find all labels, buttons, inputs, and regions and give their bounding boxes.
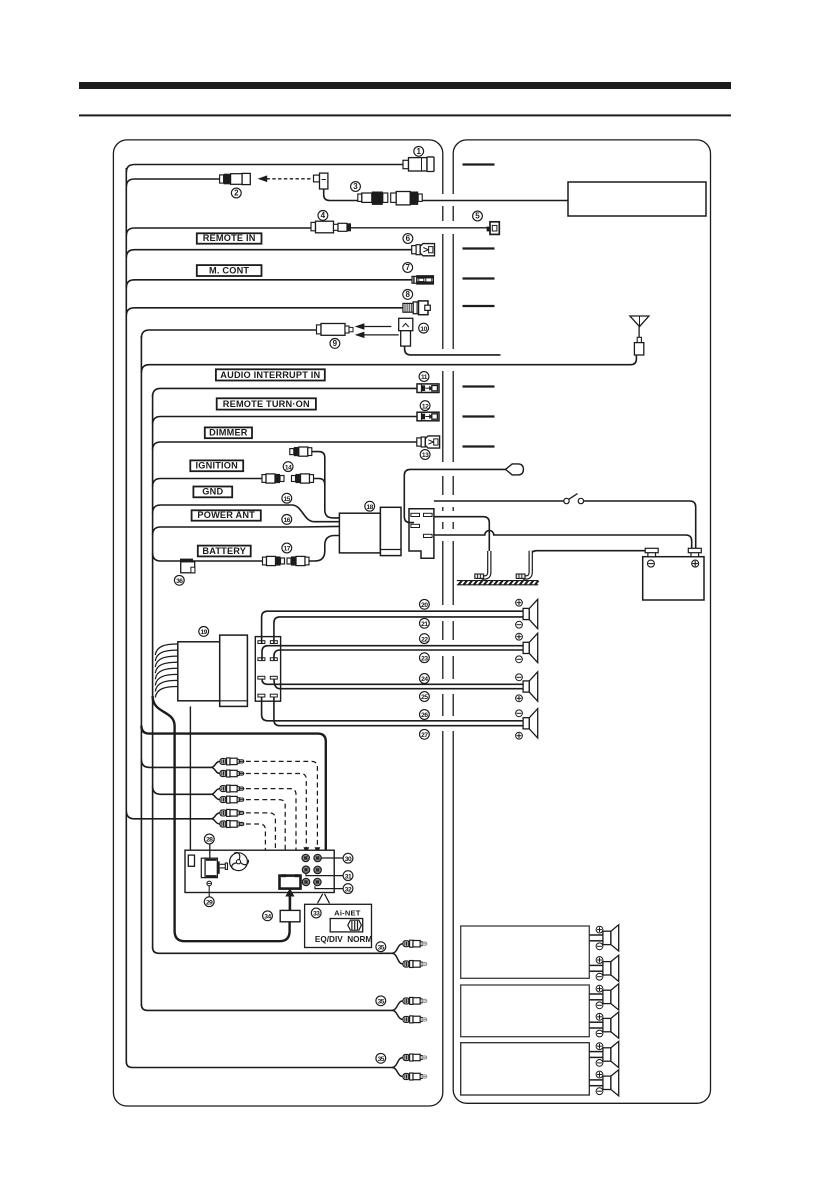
speaker wire 25 [274, 679, 523, 689]
label 12 (circled number) [420, 401, 430, 411]
rca pair 1 cable [141, 759, 211, 767]
svg-text:35: 35 [378, 999, 385, 1006]
speaker amp1-b [589, 964, 603, 966]
speaker rear-left [523, 672, 538, 701]
connector 6 [412, 244, 435, 256]
leader 31 [306, 874, 343, 876]
svg-text:REMOTE TURN·ON: REMOTE TURN·ON [223, 399, 310, 409]
connector 7 [412, 276, 433, 284]
ai-net port [280, 874, 301, 888]
amplifier box 2 [461, 985, 590, 1037]
label 7 (circled number) [403, 263, 413, 273]
label 31 (circled number) [343, 871, 353, 881]
right-angle plug 10 [399, 318, 413, 346]
svg-text:28: 28 [206, 837, 213, 844]
wire bus vertical 3 [152, 394, 154, 948]
cooling fan [230, 853, 249, 871]
svg-text:Ai-NET: Ai-NET [334, 908, 361, 917]
svg-text:5: 5 [475, 212, 480, 221]
rca jacks 32 [302, 878, 321, 885]
output cable 35 front [153, 947, 392, 953]
fuse holder 36 [180, 559, 195, 573]
power antenna wire row 16 [153, 526, 340, 535]
svg-text:33: 33 [313, 911, 320, 918]
svg-text:25: 25 [421, 694, 428, 701]
continuation marks right panel [463, 163, 495, 165]
output cable 35 rear [141, 1004, 391, 1010]
label DIMMER [205, 427, 252, 438]
label 10 (circled number) [419, 323, 429, 333]
svg-text:3: 3 [353, 182, 358, 191]
dashed route 2 [246, 774, 306, 848]
label 28 (circled number) [204, 834, 214, 844]
box 18 right section [380, 507, 401, 555]
label 30 (circled number) [343, 853, 353, 863]
dashed route 6 [246, 824, 300, 882]
rca plug 2a [220, 785, 244, 792]
speaker amp2-a [589, 993, 603, 995]
antenna [630, 316, 649, 355]
wire to power antenna tag [404, 469, 505, 522]
ai-net plug 34 [280, 910, 300, 921]
connector 3 pair [358, 192, 422, 205]
svg-text:35: 35 [378, 1056, 385, 1063]
label 19 (circled number) [199, 627, 209, 637]
svg-text:32: 32 [345, 886, 352, 893]
power antenna tag [506, 464, 524, 475]
wire to ignition switch [434, 500, 564, 502]
label REMOTE IN [197, 233, 262, 244]
svg-text:13: 13 [422, 452, 429, 459]
leader 28 [209, 844, 211, 858]
wire fan into connector 19 [155, 644, 178, 698]
svg-text:11: 11 [421, 374, 428, 381]
head unit rear panel [185, 850, 334, 892]
rca plug 2b [220, 796, 244, 803]
leader 32 [315, 886, 343, 888]
speaker wire 23 [274, 650, 523, 661]
battery wire row 17 with fuse 36 [153, 553, 263, 561]
label 33 (circled number) [311, 908, 321, 918]
dashed route 3 [246, 789, 300, 865]
amplifier box 3 [461, 1043, 590, 1095]
svg-text:M. CONT: M. CONT [209, 265, 249, 275]
svg-text:IGNITION: IGNITION [196, 461, 239, 471]
svg-text:7: 7 [405, 263, 410, 272]
antenna feed wire [141, 355, 636, 373]
svg-text:36: 36 [176, 578, 183, 585]
wire bus vertical 1 [125, 168, 127, 1063]
label 32 (circled number) [343, 884, 353, 894]
svg-text:DIMMER: DIMMER [209, 428, 248, 438]
svg-text:18: 18 [366, 504, 373, 511]
speaker wire 22 [262, 646, 523, 661]
wire row 11 to connector 11 [153, 388, 417, 396]
svg-text:10: 10 [420, 326, 427, 333]
svg-text:24: 24 [421, 676, 428, 683]
rca plug 3a [220, 809, 244, 816]
arrow into ai-net port [286, 889, 294, 911]
svg-text:23: 23 [421, 655, 428, 662]
svg-text:19: 19 [200, 629, 207, 636]
speaker harness connector [255, 637, 280, 702]
wire row 4 to connector 4 [126, 228, 311, 236]
screw 29 [207, 881, 212, 886]
label IGNITION [190, 460, 243, 471]
speaker amp2-b [589, 1021, 603, 1023]
svg-text:31: 31 [345, 873, 352, 880]
speaker amp1-a [589, 934, 603, 936]
label 14 (circled number) [283, 462, 293, 472]
rca plug 3b [220, 821, 244, 828]
connector 13 [417, 436, 440, 448]
changer cable to jacks [141, 726, 325, 861]
box 18 relay [339, 513, 380, 553]
box 33 eq/div [305, 904, 373, 947]
svg-text:30: 30 [345, 856, 352, 863]
ignition switch [564, 494, 584, 504]
connector 19 housing [178, 642, 221, 701]
dashed arrow connector 3 into 2 [259, 176, 312, 182]
svg-text:26: 26 [421, 712, 428, 719]
speaker wire 21 [274, 617, 523, 644]
label 11 (circled number) [419, 372, 429, 382]
label 1 (circled number) [414, 146, 424, 156]
rca plug 1b [220, 770, 244, 777]
svg-text:22: 22 [421, 636, 428, 643]
rca pair 2 cable [153, 786, 211, 794]
label 34 (circled number) [263, 911, 273, 921]
wire row 7 to connector 7 [126, 280, 412, 288]
ignition wire row 14 [153, 479, 262, 487]
svg-text:6: 6 [406, 234, 411, 243]
svg-text:16: 16 [284, 517, 291, 524]
connector 8 antenna plug [403, 301, 430, 315]
label 17 (circled number) [282, 543, 292, 553]
ai-net cable loop [153, 696, 290, 941]
connector 1 [403, 157, 434, 172]
svg-text:4: 4 [321, 211, 326, 220]
ground wire from connector [434, 517, 489, 552]
label REMOTE TURN-ON [217, 398, 316, 409]
label 9 (circled number) [330, 339, 340, 349]
label 35 (circled number) [376, 1053, 386, 1063]
svg-text:35: 35 [378, 944, 385, 951]
connector 4 [311, 221, 351, 233]
dashed route 5 [246, 813, 307, 879]
header rule thin [79, 114, 731, 116]
speaker wire 26 [262, 697, 523, 721]
label 8 (circled number) [403, 290, 413, 300]
svg-text:BATTERY: BATTERY [202, 546, 246, 556]
dashed route 4 [246, 800, 306, 868]
left panel (head unit side) [113, 140, 442, 1106]
label 35 (circled number) [376, 996, 386, 1006]
wire switch to battery plus [584, 501, 696, 548]
wire row 13 to connector 13 [153, 442, 417, 450]
wire row 6 to connector 6 [126, 250, 412, 258]
connector 11 [417, 384, 439, 393]
chassis ground hatching [457, 581, 539, 585]
dashed route 1 [246, 761, 317, 847]
svg-text:REMOTE IN: REMOTE IN [203, 233, 256, 243]
speaker rear-right [523, 709, 538, 738]
wire row 9 to connector 9 [141, 330, 316, 338]
wire connector 3 to head unit box [422, 200, 568, 202]
antenna receptacle [188, 855, 194, 866]
bullet connector pair 14 [262, 474, 284, 483]
right panel (vehicle side) [453, 140, 710, 1103]
label AUDIO INTERRUPT IN [216, 369, 325, 380]
rca jacks 31 [302, 866, 321, 874]
ground lug 2 [516, 551, 531, 579]
svg-text:AUDIO INTERRUPT IN: AUDIO INTERRUPT IN [220, 370, 320, 380]
svg-text:9: 9 [333, 339, 338, 348]
label BATTERY [198, 546, 251, 557]
leader 30 [322, 857, 344, 859]
label 22 (circled number) [420, 634, 430, 644]
label 5 (circled number) [473, 211, 483, 221]
lead-in wire [189, 706, 191, 853]
connector 19 body [220, 635, 248, 706]
label GND [193, 487, 232, 498]
svg-text:20: 20 [421, 602, 428, 609]
rca pair 3 cable [126, 811, 211, 819]
label 13 (circled number) [420, 450, 430, 460]
bullet connector 14 upper [290, 447, 312, 456]
output cable 35 subwoofer [126, 1062, 391, 1068]
cable 3 wire [324, 189, 358, 201]
label POWER ANT [192, 510, 261, 521]
label 2 (circled number) [231, 188, 241, 198]
connector 9 [317, 324, 354, 336]
right-angle plug of cable 3 [314, 173, 328, 189]
vehicle harness connector [409, 509, 434, 559]
ignition pigtail to fuse box [312, 452, 340, 518]
ground wire row 15 [153, 505, 340, 522]
battery positive wire [434, 531, 692, 549]
speaker wire 24 [262, 679, 523, 684]
leader 29 [208, 886, 210, 897]
din plug 28 [201, 858, 227, 877]
speaker front-left [523, 599, 538, 628]
rca jacks 30 [302, 854, 321, 861]
wire row 2 to connector 2 [126, 179, 219, 187]
svg-text:GND: GND [202, 487, 223, 497]
ground lug 1 [475, 551, 490, 578]
label 6 (circled number) [403, 234, 413, 244]
bullet connector pair 17 [263, 556, 285, 565]
cable of plug 10 [405, 346, 501, 355]
label 16 (circled number) [282, 515, 292, 525]
speaker front-right [523, 633, 538, 662]
wire row 1 to connector 1 [126, 165, 403, 173]
label 24 (circled number) [420, 674, 430, 684]
wire bus vertical 2 [140, 336, 142, 1005]
callout lines 33 [318, 894, 323, 904]
svg-text:2: 2 [234, 189, 239, 198]
svg-text:29: 29 [206, 899, 213, 906]
svg-text:14: 14 [285, 464, 292, 471]
svg-text:34: 34 [264, 914, 271, 921]
speaker amp3-b [589, 1079, 603, 1081]
label 26 (circled number) [420, 710, 430, 720]
label 21 (circled number) [420, 618, 430, 628]
label 23 (circled number) [420, 653, 430, 663]
wire row 12 to connector 12 [153, 417, 417, 425]
svg-text:1: 1 [416, 147, 421, 156]
svg-text:17: 17 [284, 546, 291, 553]
speaker wire 27 [274, 697, 523, 726]
label 36 (circled number) [174, 575, 184, 585]
speaker amp3-a [589, 1051, 603, 1053]
label 15 (circled number) [282, 493, 292, 503]
svg-text:POWER ANT: POWER ANT [197, 510, 255, 520]
plug 5 [487, 222, 500, 235]
arrows plug 10 into 9 [356, 324, 399, 338]
label M. CONT [197, 265, 262, 276]
header rule thick [79, 82, 731, 89]
svg-text:21: 21 [421, 621, 428, 628]
battery [643, 548, 704, 600]
svg-text:EQ/DIV NORM: EQ/DIV NORM [315, 935, 372, 944]
wire connector 4 to plug 5 [351, 227, 487, 229]
svg-text:27: 27 [421, 732, 428, 739]
battery negative wire [531, 551, 646, 557]
rca plug 1a [220, 758, 244, 765]
svg-text:12: 12 [422, 403, 429, 410]
svg-text:15: 15 [284, 496, 291, 503]
connector 12 [417, 412, 439, 421]
label 25 (circled number) [420, 692, 430, 702]
label 20 (circled number) [420, 599, 430, 609]
label 35 (circled number) [376, 942, 386, 952]
svg-text:8: 8 [405, 290, 410, 299]
label 27 (circled number) [420, 729, 430, 739]
connector 2 [220, 173, 251, 184]
border gaps [439, 194, 459, 206]
speaker wire 20 [262, 611, 523, 643]
label 4 (circled number) [318, 211, 328, 221]
amplifier box 1 [461, 926, 590, 978]
head unit box [568, 182, 706, 216]
label 3 (circled number) [351, 182, 361, 192]
wire row 8 to connector 8 [126, 308, 403, 316]
label 29 (circled number) [204, 897, 214, 907]
label 18 (circled number) [365, 501, 375, 511]
